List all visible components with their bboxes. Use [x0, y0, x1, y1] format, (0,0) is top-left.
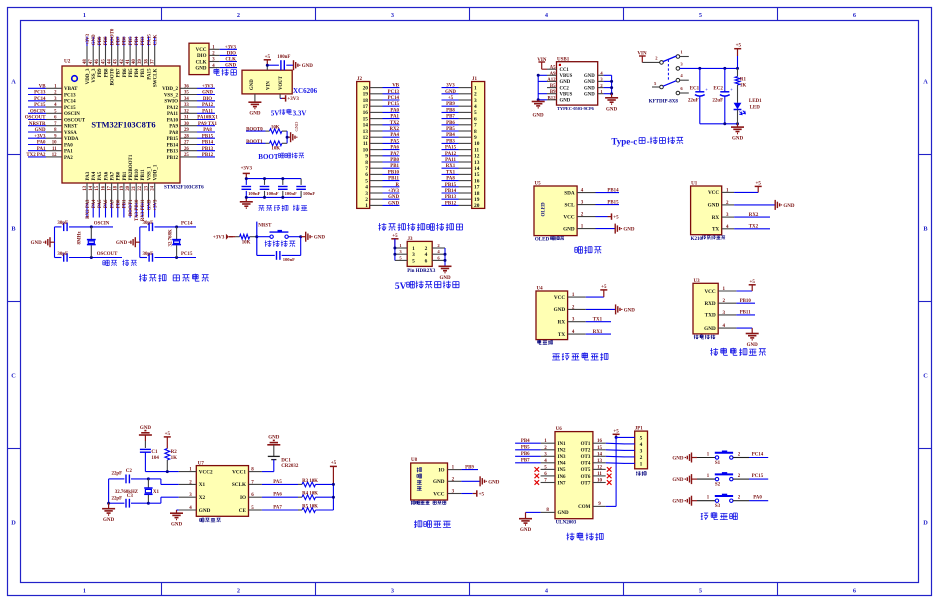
svg-text:PB9: PB9	[446, 102, 455, 107]
svg-text:16: 16	[597, 439, 603, 444]
capacitor 100nF #3	[282, 179, 284, 185]
svg-text:VCC: VCC	[433, 491, 444, 497]
svg-text:8MHz: 8MHz	[77, 231, 82, 245]
svg-text:IN7: IN7	[558, 481, 567, 486]
svg-text:PB7: PB7	[117, 68, 122, 77]
svg-text:VIN: VIN	[266, 81, 271, 90]
U2 right wires and net labels	[197, 84, 218, 158]
svg-text:U1: U1	[691, 182, 698, 187]
svg-text:42: 42	[120, 59, 125, 64]
capacitor 100nF input	[280, 60, 282, 70]
svg-text:1: 1	[474, 85, 477, 91]
svg-text:GND: GND	[195, 66, 207, 71]
junction dots	[245, 177, 248, 180]
svg-text:PA4: PA4	[390, 133, 399, 138]
svg-text:26: 26	[184, 147, 189, 152]
wire button to gnd	[288, 236, 300, 238]
resistor R8 10K	[236, 236, 240, 238]
svg-text:29: 29	[184, 128, 189, 133]
svg-text:100nF: 100nF	[283, 257, 295, 262]
USB1 right pins and numbers	[598, 71, 612, 94]
svg-text:48: 48	[83, 59, 88, 64]
svg-text:PA12: PA12	[202, 103, 214, 108]
svg-text:C: C	[11, 373, 16, 380]
svg-text:GND: GND	[314, 236, 326, 241]
svg-text:11: 11	[597, 472, 602, 477]
svg-text:PB10: PB10	[388, 170, 400, 175]
svg-text:16: 16	[101, 185, 106, 190]
svg-text:GND: GND	[249, 112, 261, 117]
wire VOUT to +3V3	[279, 94, 281, 99]
svg-text:PA6: PA6	[390, 146, 399, 151]
junction dots right	[610, 80, 613, 83]
wire VCC2	[145, 471, 178, 473]
svg-text:37: 37	[151, 59, 156, 64]
svg-text:GND: GND	[225, 64, 236, 69]
svg-text:13: 13	[597, 459, 603, 464]
svg-text:3: 3	[365, 191, 368, 197]
node X1 top	[147, 477, 150, 480]
svg-text:GND: GND	[92, 34, 97, 45]
node OSCIN	[90, 225, 93, 228]
svg-text:IN3: IN3	[558, 455, 567, 460]
JP1 wires	[606, 437, 635, 463]
svg-text:22pF: 22pF	[112, 472, 123, 477]
svg-text:KFTDIP-8X8: KFTDIP-8X8	[649, 99, 679, 104]
svg-text:GND: GND	[199, 508, 211, 514]
svg-text:TYPEC-0503-9CP6: TYPEC-0503-9CP6	[557, 106, 595, 111]
svg-text:PB8: PB8	[104, 68, 109, 77]
svg-text:OT2: OT2	[581, 449, 591, 454]
svg-text:PA7: PA7	[273, 506, 282, 511]
svg-text:GND: GND	[623, 228, 635, 233]
U2 bottom wires and net labels	[86, 199, 159, 221]
svg-text:OSCIN: OSCIN	[64, 112, 80, 117]
svg-text:GND: GND	[584, 86, 595, 91]
node X2 bottom	[147, 502, 150, 505]
svg-text:GND: GND	[672, 457, 684, 462]
capacitor C2 22pF	[109, 478, 125, 480]
svg-text:SWIO: SWIO	[164, 100, 178, 105]
svg-text:OSCIN: OSCIN	[94, 222, 110, 227]
svg-text:PB10: PB10	[135, 169, 140, 181]
BOOT config circuit	[246, 121, 299, 152]
svg-text:PC14: PC14	[752, 452, 764, 457]
caption reset circuit	[265, 240, 272, 246]
svg-text:LED: LED	[750, 105, 761, 110]
crystal circuit Y2 32.768K	[116, 221, 196, 262]
svg-text:VCC: VCC	[563, 214, 574, 220]
svg-text:XC6206: XC6206	[293, 87, 318, 95]
svg-text:+3V3: +3V3	[86, 33, 91, 45]
svg-text:IN1: IN1	[558, 442, 567, 447]
wire right vertical to ground	[444, 248, 446, 266]
svg-text:PA0: PA0	[753, 496, 762, 501]
svg-text:PB0: PB0	[117, 171, 122, 180]
svg-text:CLK: CLK	[225, 58, 236, 63]
svg-text:VDD_1: VDD_1	[154, 164, 159, 180]
switch pole 5-4	[676, 78, 680, 82]
svg-text:VB: VB	[392, 84, 400, 89]
svg-text:18: 18	[114, 185, 119, 190]
svg-text:BOOT: BOOT	[258, 153, 279, 161]
svg-text:PC15: PC15	[752, 474, 764, 479]
module U8 IR sensor	[411, 458, 462, 500]
svg-text:PB6: PB6	[123, 36, 128, 45]
svg-text:ULN2003: ULN2003	[556, 521, 577, 526]
ground crystal	[108, 503, 110, 509]
mcu U2 STM32F103C8T6	[62, 59, 180, 184]
svg-text:PA7: PA7	[390, 152, 399, 157]
svg-text:PB0: PB0	[390, 158, 399, 163]
svg-text:GND: GND	[294, 121, 299, 131]
svg-text:35: 35	[184, 91, 189, 96]
svg-text:17: 17	[474, 185, 480, 191]
svg-text:PC15: PC15	[34, 103, 46, 108]
svg-text:SCLK: SCLK	[232, 482, 246, 488]
module U5 OLED display	[534, 182, 596, 236]
svg-text:GND: GND	[433, 479, 445, 485]
svg-text:GND: GND	[560, 80, 571, 85]
svg-text:GND: GND	[747, 343, 759, 348]
svg-text:X1: X1	[153, 490, 160, 495]
node OSCOUT	[90, 256, 93, 259]
comment motor	[636, 471, 641, 475]
svg-text:1: 1	[83, 588, 86, 595]
svg-text:DIO: DIO	[227, 52, 236, 57]
wire bottom rail	[246, 196, 301, 198]
junction dots	[393, 247, 396, 250]
junction	[286, 136, 289, 139]
J2 pins wires and net labels	[370, 84, 400, 207]
svg-text:X1: X1	[199, 482, 206, 488]
svg-text:12: 12	[474, 154, 480, 160]
svg-text:GND: GND	[554, 307, 566, 313]
caption chip filter caps	[259, 205, 265, 211]
svg-text:15: 15	[363, 116, 369, 122]
svg-text:6: 6	[474, 116, 477, 122]
svg-text:VDDA: VDDA	[64, 137, 79, 142]
comment IR sensor	[411, 501, 415, 505]
U1 wires and labels	[734, 182, 795, 230]
capacitor 30pF top	[148, 223, 150, 231]
ground under GND pin	[254, 94, 256, 102]
svg-text:+5: +5	[736, 44, 742, 49]
button S4	[270, 235, 273, 238]
svg-text:PA3: PA3	[86, 171, 91, 180]
svg-text:GND: GND	[488, 480, 500, 485]
svg-text:VDD_3: VDD_3	[86, 68, 91, 84]
wire battery to VCC1	[262, 471, 274, 473]
switch dashed gang link	[667, 60, 669, 81]
svg-text:U3: U3	[694, 279, 701, 284]
svg-text:TX1: TX1	[593, 318, 603, 323]
svg-text:6: 6	[853, 588, 856, 595]
svg-text:+5: +5	[331, 461, 337, 466]
node PC14	[175, 225, 178, 228]
svg-text:12: 12	[52, 153, 57, 158]
pin 6	[676, 91, 680, 95]
svg-text:+3V3: +3V3	[34, 134, 46, 139]
svg-text:RX: RX	[712, 215, 720, 221]
svg-text:100nF: 100nF	[266, 191, 278, 196]
svg-text:C: C	[923, 373, 928, 380]
capacitor EC1 22uF	[699, 68, 701, 91]
svg-text:GND: GND	[584, 80, 595, 85]
svg-text:LED1: LED1	[749, 99, 762, 104]
svg-text:2: 2	[425, 246, 428, 252]
module U7 clock DS1302	[179, 461, 262, 516]
U2 top pins and numbers	[83, 46, 156, 66]
svg-text:PB2BOOT1: PB2BOOT1	[129, 154, 134, 180]
caption stepper motor	[567, 533, 575, 541]
USB1 left pins	[547, 69, 557, 100]
switch SW1 KFTDIP-8X8	[637, 49, 699, 104]
svg-text:VCC1: VCC1	[232, 469, 246, 475]
svg-text:GND: GND	[584, 74, 595, 79]
svg-text:46: 46	[95, 59, 100, 64]
svg-text:VBUS: VBUS	[560, 74, 573, 79]
svg-text:9: 9	[474, 135, 477, 141]
svg-text:PB4: PB4	[521, 439, 530, 444]
svg-text:NRST: NRST	[64, 125, 78, 130]
button S2	[672, 472, 768, 487]
svg-text:2: 2	[365, 197, 368, 203]
svg-text:10: 10	[597, 479, 603, 484]
svg-text:GND: GND	[388, 201, 399, 206]
connector JP1 motor	[635, 427, 648, 469]
svg-text:44: 44	[108, 59, 113, 64]
svg-text:GND: GND	[558, 511, 570, 516]
caption IR tubes	[414, 520, 422, 528]
svg-text:GND: GND	[708, 203, 720, 209]
svg-text:14: 14	[597, 452, 603, 457]
svg-text:GND: GND	[171, 523, 183, 528]
svg-text:-: -	[647, 137, 650, 147]
svg-text:10K: 10K	[242, 240, 251, 245]
svg-text:25: 25	[184, 153, 189, 158]
svg-text:PA1: PA1	[390, 115, 399, 120]
svg-text:13: 13	[363, 129, 369, 135]
svg-text:PB4: PB4	[135, 36, 140, 45]
U2 right pins and numbers	[180, 85, 197, 159]
svg-text:PA0: PA0	[390, 108, 399, 113]
svg-text:18: 18	[474, 191, 480, 197]
svg-text:RX1: RX1	[446, 164, 456, 169]
svg-text:PB9: PB9	[465, 465, 474, 470]
svg-text:27: 27	[184, 141, 189, 146]
wire OSCOUT branch	[55, 257, 62, 259]
svg-text:VBAT: VBAT	[64, 87, 78, 92]
svg-text:30pF: 30pF	[57, 221, 68, 226]
svg-text:VBUS: VBUS	[560, 92, 573, 97]
U2 left pins and numbers	[46, 85, 62, 159]
svg-text:RX2 PA3: RX2 PA3	[86, 199, 91, 219]
svg-text:PB5: PB5	[446, 127, 455, 132]
svg-text:31: 31	[184, 116, 189, 121]
svg-text:+5: +5	[479, 492, 485, 497]
svg-text:15: 15	[474, 172, 480, 178]
svg-text:PB7: PB7	[521, 459, 530, 464]
capacitor 100nF reset	[257, 254, 275, 256]
svg-text:BOOT0: BOOT0	[246, 128, 263, 133]
svg-text:19: 19	[363, 92, 369, 98]
svg-text:PB6: PB6	[521, 452, 530, 457]
svg-text:A12: A12	[547, 78, 556, 83]
J1 pins wires and net labels	[442, 84, 472, 207]
svg-text:36: 36	[184, 85, 189, 90]
svg-text:10: 10	[52, 141, 57, 146]
caption download port	[214, 69, 220, 76]
svg-text:PA1: PA1	[64, 150, 73, 155]
no connect X marks inputs	[535, 467, 540, 472]
svg-text:RX2: RX2	[389, 127, 399, 132]
svg-text:PA0: PA0	[64, 143, 73, 148]
svg-text:OT7: OT7	[581, 481, 591, 486]
svg-text:PA5: PA5	[98, 171, 103, 180]
button S1	[672, 451, 768, 466]
svg-text:IN6: IN6	[558, 475, 567, 480]
svg-text:VCC2: VCC2	[199, 469, 213, 475]
svg-text:34: 34	[184, 97, 189, 102]
svg-text:30: 30	[184, 122, 189, 127]
svg-text:PB3: PB3	[141, 36, 146, 45]
svg-text:RX: RX	[558, 320, 566, 326]
svg-text:OSCOUT: OSCOUT	[64, 118, 86, 123]
svg-text:3: 3	[412, 252, 415, 258]
connector USB1 TYPEC	[547, 57, 597, 105]
connector P1 download port	[189, 43, 237, 74]
resistor R2 1K	[165, 449, 170, 461]
svg-text:32.768K: 32.768K	[168, 229, 173, 246]
connector J3 Pin HDR2X3	[395, 237, 445, 266]
svg-text:28: 28	[184, 134, 189, 139]
svg-text:BOOT0: BOOT0	[110, 28, 115, 45]
wire join	[286, 131, 288, 143]
svg-text:20: 20	[126, 185, 131, 190]
svg-text:R3 10K: R3 10K	[302, 479, 318, 484]
svg-text:OT4: OT4	[581, 462, 591, 467]
wire OSCIN branch	[54, 227, 56, 258]
svg-text:3: 3	[391, 12, 394, 19]
svg-text:15: 15	[597, 446, 603, 451]
svg-text:PA5: PA5	[390, 139, 399, 144]
svg-text:VSS_2: VSS_2	[164, 93, 179, 98]
svg-text:NRSTR: NRSTR	[29, 122, 46, 127]
U2 bottom pins and numbers	[83, 183, 156, 203]
svg-text:U2: U2	[64, 59, 71, 65]
svg-text:21: 21	[132, 185, 137, 190]
svg-text:15: 15	[95, 185, 100, 190]
svg-text:VCC: VCC	[196, 48, 207, 53]
svg-text:1K: 1K	[740, 83, 747, 88]
svg-text:PA7: PA7	[111, 171, 116, 180]
svg-text:A: A	[923, 79, 928, 86]
ground U7 pin4	[177, 509, 179, 511]
pin 3 wire to rail	[676, 67, 680, 71]
wire VIN	[266, 65, 268, 70]
svg-text:IO: IO	[240, 495, 246, 501]
crystal X1	[147, 479, 149, 488]
svg-text:2: 2	[474, 92, 477, 98]
svg-text:EC1: EC1	[690, 87, 700, 92]
svg-text:4: 4	[474, 104, 477, 110]
U3 wires and labels	[736, 280, 758, 348]
svg-text:GND: GND	[563, 226, 575, 232]
module U4 barcode scanner	[536, 287, 586, 340]
svg-text:D: D	[923, 520, 928, 527]
svg-text:18: 18	[363, 98, 369, 104]
svg-text:12: 12	[597, 465, 603, 470]
svg-text:6: 6	[365, 172, 368, 178]
svg-text:SCL: SCL	[565, 202, 576, 208]
svg-text:7: 7	[365, 166, 368, 172]
svg-text:B9: B9	[550, 90, 556, 95]
svg-text:4: 4	[365, 185, 368, 191]
svg-text:3.3V: 3.3V	[293, 109, 307, 117]
svg-text:PC15: PC15	[64, 106, 76, 111]
svg-text:5: 5	[474, 110, 477, 116]
svg-text:PB12: PB12	[167, 156, 179, 161]
svg-text:100nF: 100nF	[285, 191, 297, 196]
svg-text:PB14: PB14	[445, 189, 457, 194]
svg-text:S3: S3	[715, 504, 721, 509]
svg-text:1: 1	[365, 203, 368, 209]
svg-text:+3V3: +3V3	[241, 167, 253, 172]
svg-text:5V: 5V	[395, 282, 407, 292]
svg-text:7: 7	[474, 123, 477, 129]
svg-text:TX: TX	[558, 332, 565, 338]
svg-text:PA15: PA15	[147, 68, 152, 80]
svg-text:TXD: TXD	[705, 313, 716, 319]
svg-text:IN4: IN4	[558, 462, 567, 467]
svg-text:47: 47	[89, 59, 94, 64]
svg-text:GND: GND	[704, 326, 716, 332]
ground	[129, 237, 135, 247]
svg-text:SWCLK: SWCLK	[154, 68, 159, 87]
svg-text:U5: U5	[535, 182, 542, 187]
svg-text:14: 14	[363, 123, 369, 129]
svg-text:PA9: PA9	[169, 125, 178, 130]
svg-text:PB9: PB9	[98, 68, 103, 77]
svg-text:RX1: RX1	[593, 330, 603, 335]
capacitor EC2 22uF	[724, 68, 726, 91]
svg-text:30pF: 30pF	[143, 252, 154, 257]
capacitor 100nF #1	[245, 179, 247, 185]
module U3 voice output	[693, 279, 736, 334]
U6 input wires PB4-PB7	[515, 439, 541, 464]
svg-text:40: 40	[132, 59, 137, 64]
svg-text:C1: C1	[151, 450, 158, 455]
svg-text:PB14: PB14	[607, 188, 619, 193]
svg-text:OT1: OT1	[581, 442, 591, 447]
svg-text:GND: GND	[606, 107, 618, 112]
svg-text:+3V3: +3V3	[202, 84, 214, 89]
svg-text:D: D	[11, 520, 16, 527]
svg-text:PB1: PB1	[123, 199, 128, 208]
svg-text:20: 20	[363, 85, 369, 91]
svg-text:OT3: OT3	[581, 455, 591, 460]
svg-text:VSS_1: VSS_1	[147, 166, 152, 181]
svg-text:PA12: PA12	[167, 106, 179, 111]
svg-text:9: 9	[365, 154, 368, 160]
svg-text:STM32F103C8T6: STM32F103C8T6	[164, 185, 204, 191]
svg-text:3: 3	[640, 448, 643, 454]
svg-text:DIO: DIO	[203, 97, 212, 102]
svg-text:24: 24	[151, 185, 156, 190]
button S3	[672, 494, 768, 509]
svg-text:19: 19	[120, 185, 125, 190]
